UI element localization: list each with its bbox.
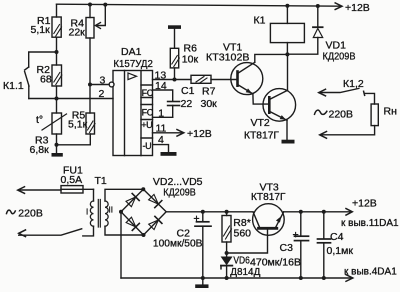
labels +12V out / to pin 11 DA1 bbox=[341, 197, 399, 229]
svg-text:30к: 30к bbox=[201, 98, 218, 110]
svg-text:VD6: VD6 bbox=[233, 256, 250, 267]
svg-text:22к: 22к bbox=[69, 27, 86, 39]
wire node B to DA1 pin 2 bbox=[29, 98, 113, 100]
svg-text:0,1мк: 0,1мк bbox=[327, 245, 354, 257]
wire bottom rail bbox=[121, 275, 353, 282]
arrow +12V top bbox=[335, 3, 342, 10]
svg-text:10к: 10к bbox=[182, 54, 199, 66]
resistor Rn load bbox=[371, 104, 397, 126]
svg-text:6,8к: 6,8к bbox=[30, 144, 50, 156]
svg-text:R6: R6 bbox=[184, 42, 198, 54]
fuse FU1 with mains arrow bbox=[18, 165, 94, 194]
svg-text:КД209В: КД209В bbox=[163, 186, 196, 198]
pin 13 wire bbox=[153, 70, 192, 82]
node R8/VD6/base bbox=[225, 251, 229, 255]
svg-text:КТ817Г: КТ817Г bbox=[244, 129, 279, 141]
capacitor C2 bbox=[153, 210, 211, 278]
capacitor C4 bbox=[318, 210, 354, 280]
resistor R8 bbox=[222, 210, 251, 253]
svg-text:КТ817Г: КТ817Г bbox=[251, 191, 286, 203]
svg-text:5,1к: 5,1к bbox=[31, 24, 51, 36]
svg-text:DA1: DA1 bbox=[121, 46, 142, 58]
wire R7 to VT1 base bbox=[211, 79, 238, 81]
ground at pin 4 bbox=[161, 152, 177, 156]
svg-text:100мк/50В: 100мк/50В bbox=[153, 238, 203, 250]
svg-text:5,1к: 5,1к bbox=[68, 119, 88, 131]
svg-text:1: 1 bbox=[158, 107, 164, 119]
svg-text:2: 2 bbox=[99, 88, 105, 100]
svg-text:Т1: Т1 bbox=[95, 175, 107, 187]
pin 1 wire bbox=[153, 107, 173, 119]
node R4 top rail bbox=[88, 3, 92, 7]
diode VD4 lower-left bbox=[126, 217, 136, 227]
svg-text:560: 560 bbox=[234, 227, 252, 239]
pin 4 wire bbox=[153, 134, 169, 152]
node coil bottom bbox=[285, 52, 289, 56]
ground bottom rail bbox=[195, 276, 208, 288]
transistor VT3 bbox=[251, 181, 286, 235]
svg-text:FC: FC bbox=[142, 108, 154, 118]
ground at VT2 emitter bbox=[282, 120, 295, 143]
resistor R7 bbox=[191, 75, 217, 110]
svg-text:0,5А: 0,5А bbox=[61, 174, 83, 186]
wire VT1 collector bbox=[255, 54, 288, 62]
svg-text:к выв.11DA1: к выв.11DA1 bbox=[341, 218, 399, 229]
relay contact K1.1 bbox=[3, 52, 57, 99]
wire +12V top rail bbox=[57, 4, 342, 6]
svg-text:К1.1: К1.1 bbox=[3, 80, 24, 92]
capacitor C1 bbox=[168, 85, 195, 117]
relay K1 bbox=[254, 6, 305, 55]
transistor VT2 bbox=[244, 89, 296, 142]
svg-text:КТ3102В: КТ3102В bbox=[206, 52, 250, 64]
wire bridge minus to bottom rail bbox=[120, 212, 122, 278]
capacitor C3 bbox=[250, 210, 309, 280]
svg-text:t°: t° bbox=[36, 114, 43, 126]
svg-text:К1,2: К1,2 bbox=[343, 78, 364, 90]
pin labels 3 and 2 bbox=[99, 75, 106, 101]
resistor R6 bbox=[170, 29, 198, 80]
transformer T1 bbox=[19, 175, 144, 237]
diode VD5 lower-right bbox=[149, 220, 159, 230]
wire VT2 collector bbox=[287, 54, 289, 90]
svg-text:КД209В: КД209В bbox=[323, 51, 356, 63]
resistor R1 bbox=[31, 4, 62, 52]
svg-text:Д814Д: Д814Д bbox=[230, 267, 260, 278]
svg-text:+12В: +12В bbox=[352, 197, 377, 209]
wire VT1 emitter to VT2 base bbox=[253, 94, 269, 104]
relay contact K1.2 with mains arrows bbox=[315, 78, 375, 138]
node B bbox=[55, 97, 59, 101]
node A bbox=[55, 50, 59, 54]
zener VD6 bbox=[221, 253, 261, 280]
ground under R3 bbox=[52, 145, 63, 157]
resistor R2 bbox=[37, 52, 62, 99]
wire VT3 base bbox=[227, 230, 268, 254]
svg-text:22: 22 bbox=[181, 98, 193, 110]
svg-text:14: 14 bbox=[155, 80, 167, 92]
svg-text:4: 4 bbox=[158, 134, 164, 146]
diode VD1 bbox=[287, 6, 355, 63]
wire R4 to R5 column bbox=[89, 38, 91, 113]
node R3/R5 junction bbox=[55, 143, 59, 147]
node pin13/R6 bbox=[173, 78, 177, 82]
svg-text:R7: R7 bbox=[202, 86, 216, 98]
svg-text:+12В: +12В bbox=[345, 2, 370, 14]
chassis bar above R6 bbox=[168, 25, 181, 29]
pin 11 wire to +12V bbox=[153, 123, 212, 140]
svg-text:-U: -U bbox=[143, 141, 152, 151]
svg-text:220В: 220В bbox=[329, 109, 354, 121]
resistor R4 bbox=[69, 5, 95, 39]
svg-text:к выв.4DA1: к выв.4DA1 bbox=[344, 267, 397, 278]
svg-text:+12В: +12В bbox=[187, 128, 212, 140]
pin 14 wire bbox=[153, 80, 173, 101]
resistor R5 bbox=[58, 110, 95, 145]
svg-text:I: I bbox=[86, 208, 88, 217]
diode VD2 upper-left bbox=[126, 197, 136, 207]
svg-text:C1: C1 bbox=[181, 85, 195, 97]
wire R4 wiper bbox=[95, 5, 105, 29]
thermistor R3 bbox=[30, 99, 67, 157]
node K1 rail bbox=[285, 4, 289, 8]
op-amp DA1 bbox=[113, 46, 154, 155]
svg-text:II: II bbox=[109, 206, 113, 215]
svg-text:К157УД2: К157УД2 bbox=[113, 58, 153, 70]
bridge rectifier VD2...VD5 bbox=[119, 176, 203, 237]
wire to pin 3 bbox=[90, 84, 109, 86]
svg-text:11: 11 bbox=[156, 123, 167, 135]
svg-text:К1: К1 bbox=[254, 15, 266, 27]
svg-text:C3: C3 bbox=[280, 242, 294, 254]
svg-text:68: 68 bbox=[40, 74, 52, 86]
svg-text:C4: C4 bbox=[330, 231, 344, 243]
node VD1 rail bbox=[316, 4, 320, 8]
diode VD3 upper-right bbox=[149, 194, 159, 204]
wire +12V output bbox=[284, 209, 353, 216]
svg-text:3: 3 bbox=[100, 75, 106, 87]
svg-text:VT2: VT2 bbox=[251, 117, 270, 129]
wire bridge plus to VT3 collector bbox=[166, 211, 253, 213]
svg-text:+U: +U bbox=[141, 120, 152, 130]
svg-text:Rн: Rн bbox=[384, 106, 398, 118]
mains label ~220V bottom bbox=[7, 208, 43, 220]
node R4 wiper rail bbox=[103, 3, 107, 7]
transistor VT1 bbox=[206, 41, 263, 94]
pin 3 inversion bubble bbox=[109, 82, 114, 87]
node pin3 tap bbox=[88, 83, 92, 87]
svg-text:220В: 220В bbox=[18, 208, 43, 220]
svg-text:470мк/16В: 470мк/16В bbox=[250, 257, 301, 268]
